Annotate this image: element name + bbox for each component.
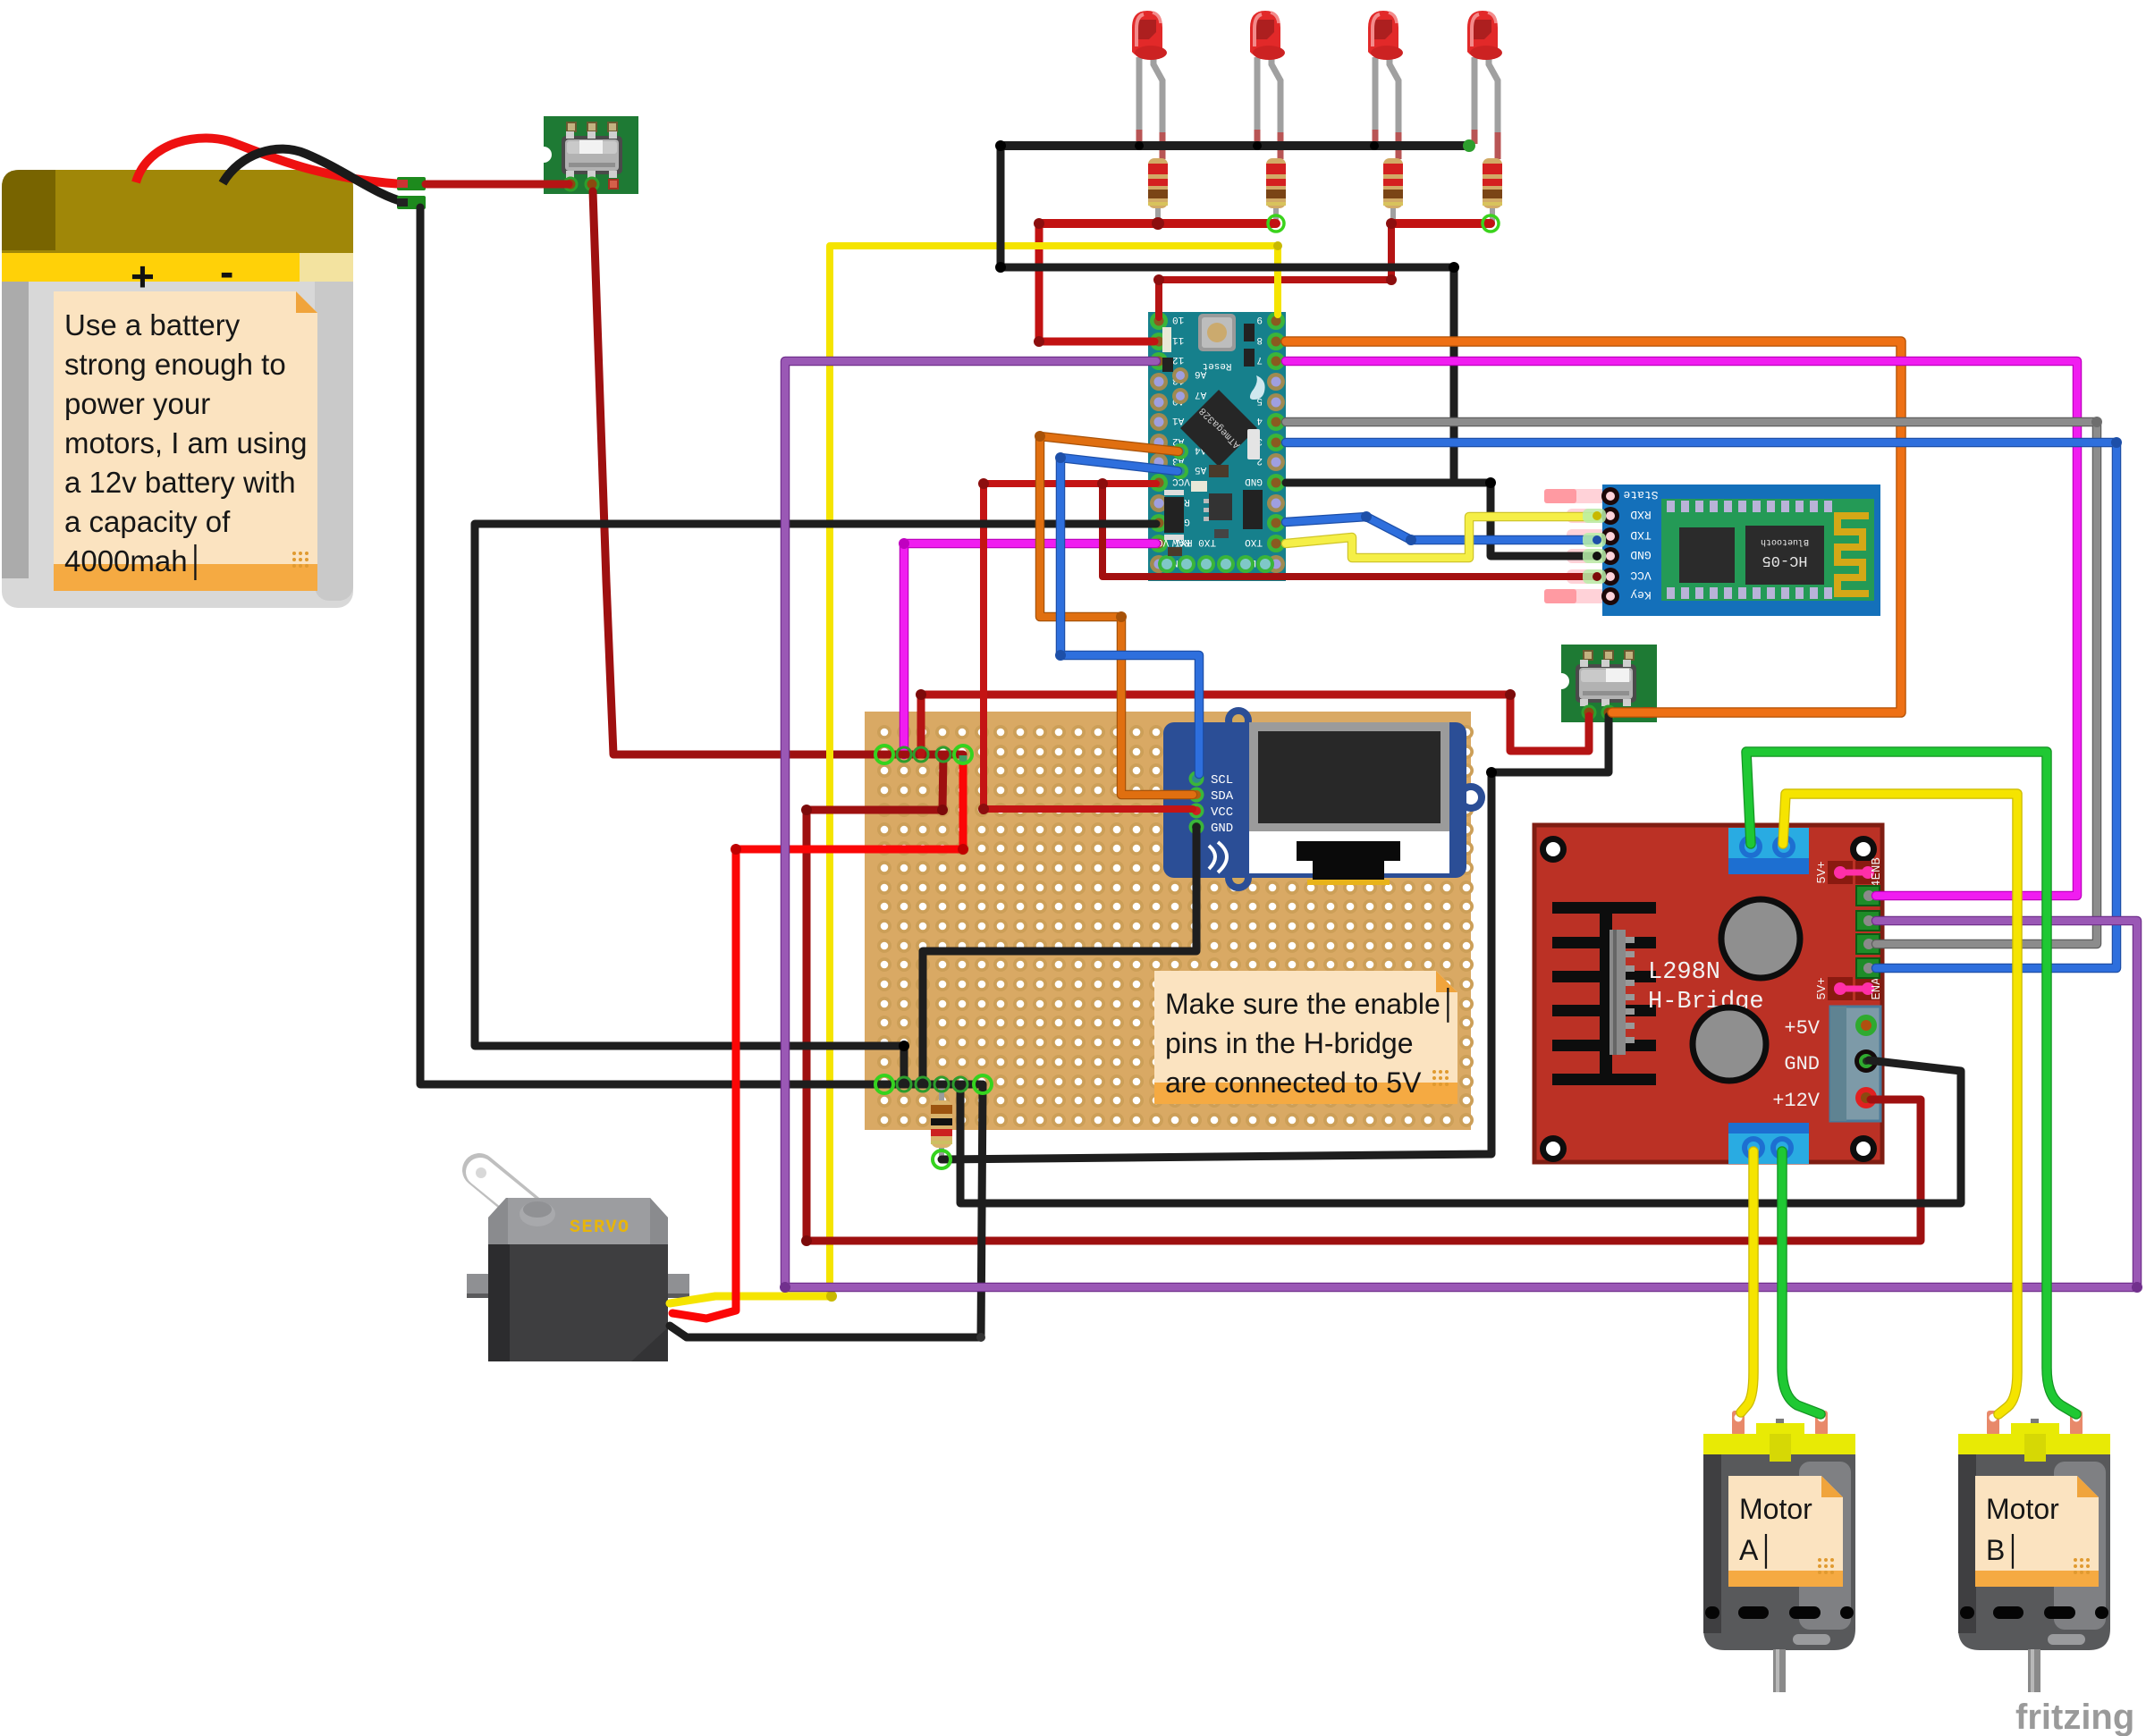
svg-text:11: 11 <box>1172 334 1185 345</box>
wire dark red breadboard branch <box>807 754 943 810</box>
wire black bus drop <box>997 146 1005 267</box>
junction hole <box>875 746 893 763</box>
wire yellow OUT to motor B <box>1783 794 2017 1414</box>
wire red VCC arduino to OLED <box>984 484 1193 809</box>
resistor R1 <box>1148 158 1168 223</box>
svg-text:4000mah│: 4000mah│ <box>64 544 206 580</box>
svg-text:Make sure the enable│: Make sure the enable│ <box>1165 987 1458 1023</box>
svg-text:GND: GND <box>1784 1053 1820 1075</box>
wire green OUT to motor A <box>1782 1151 1821 1414</box>
svg-text:RXD: RXD <box>1630 508 1652 521</box>
wire black LED cathode bus1 <box>1001 141 1469 150</box>
wire black arduino gnd-left to breadboard <box>475 524 1156 1084</box>
svg-text:SERVO: SERVO <box>570 1218 630 1238</box>
battery 12V LiPo <box>2 170 353 608</box>
note battery <box>54 291 317 591</box>
svg-text:4: 4 <box>1256 415 1263 426</box>
svg-text:are connected to 5V: are connected to 5V <box>1165 1066 1422 1099</box>
wire black breadboard to hbridge gnd <box>960 1060 1961 1203</box>
resistor R4 <box>1483 158 1502 223</box>
note motor A <box>1728 1476 1843 1587</box>
svg-text:pins in the H-bridge: pins in the H-bridge <box>1165 1027 1413 1059</box>
LED2 red <box>1250 11 1285 159</box>
svg-text:Motor: Motor <box>1986 1493 2059 1525</box>
LED3 red <box>1368 11 1403 159</box>
svg-text:Use a battery: Use a battery <box>64 308 241 341</box>
svg-text:VCC: VCC <box>1211 805 1233 820</box>
wire red breadboard to switch2 <box>921 695 1589 751</box>
wire red bus to pin11 <box>1039 223 1154 341</box>
svg-text:power your: power your <box>64 387 210 420</box>
wire blue A5 to OLED SCL <box>1060 458 1199 774</box>
HC-05 bluetooth module <box>1544 485 1880 616</box>
svg-text:A│: A│ <box>1739 1533 1776 1569</box>
wire black battery negative <box>223 149 404 202</box>
svg-text:A7: A7 <box>1195 389 1206 400</box>
svg-text:4ENB: 4ENB <box>1870 857 1884 888</box>
svg-text:5V+: 5V+ <box>1815 861 1829 883</box>
wire bright red breadboard to servo 5V <box>672 761 963 1319</box>
junction R4 bottom <box>1483 215 1499 232</box>
resistor R3 <box>1383 158 1403 223</box>
svg-text:strong enough to: strong enough to <box>64 348 286 381</box>
wire black bus2 to arduino gnd <box>1450 267 1458 483</box>
wire orange A4 to OLED SDA <box>1040 436 1193 795</box>
svg-text:+12V: +12V <box>1772 1090 1821 1112</box>
svg-text:a capacity of: a capacity of <box>64 505 231 538</box>
wire black OLED gnd to breadboard <box>923 827 1196 1084</box>
junction hole <box>933 1150 950 1168</box>
wire black resistor R5 to switch2 <box>942 716 1609 1159</box>
wire yellow servo to pin9 <box>830 246 1278 1296</box>
wire dark red VCC to HC-05 <box>1103 484 1597 577</box>
L298N H-Bridge module <box>1534 825 1884 1164</box>
svg-text:Motor: Motor <box>1739 1493 1812 1525</box>
slide switch SW2 <box>1553 645 1657 722</box>
wire blue pin3 to IN1 <box>1286 442 2116 968</box>
svg-text:GND: GND <box>1211 822 1233 836</box>
svg-text:ENA: ENA <box>1870 977 1884 1000</box>
svg-text:GND: GND <box>1630 548 1652 561</box>
slide switch SW1 <box>536 116 638 194</box>
svg-text:VCC: VCC <box>1630 569 1652 582</box>
wire magenta RAW to breadboard <box>904 544 1156 754</box>
wire purple pin12 to IN3 <box>785 361 2137 1287</box>
Arduino Pro Mini U1 <box>1128 312 1286 581</box>
junction hole <box>974 1075 992 1093</box>
wire dark red +12V to hbridge <box>807 810 1921 1241</box>
wire black LED cathode bus2 <box>1001 264 1454 272</box>
resistor R5 <box>931 1084 952 1159</box>
note H-bridge enable <box>1154 971 1458 1104</box>
wire magenta pin7 to IN4 <box>1286 361 2077 896</box>
wire red bus to pin10 <box>1159 223 1391 317</box>
wire red riser <box>917 695 925 754</box>
wire orange pin8 to switch2 <box>1286 341 1901 712</box>
LED1 red <box>1132 11 1167 159</box>
svg-text:GND: GND <box>1245 476 1263 486</box>
svg-text:-: - <box>220 249 233 295</box>
wire red resistor bus R1R2 <box>1039 219 1276 228</box>
svg-text:HC-05: HC-05 <box>1762 552 1807 569</box>
note motor B <box>1975 1476 2099 1587</box>
wire red resistor bus R3R4 <box>1391 219 1491 228</box>
resistor R2 <box>1266 158 1286 223</box>
servo motor <box>467 1167 689 1361</box>
svg-text:10: 10 <box>1172 314 1184 324</box>
wire yellow OUT to motor A <box>1741 1151 1753 1412</box>
svg-text:L298N: L298N <box>1648 959 1720 986</box>
svg-text:9: 9 <box>1256 314 1263 324</box>
junction LED4 cathode <box>1463 139 1475 152</box>
svg-text:SCL: SCL <box>1211 773 1233 788</box>
svg-text:TXO: TXO <box>1245 536 1263 547</box>
wire green OUT to motor B <box>1746 752 2076 1414</box>
svg-text:State: State <box>1623 488 1658 501</box>
wire blue RXI to HC-05 TXD <box>1286 517 1597 540</box>
svg-text:5V+: 5V+ <box>1815 977 1829 999</box>
DC motor B <box>1958 1411 2110 1692</box>
wire gray pin4 to IN2 <box>1286 422 2097 944</box>
svg-text:A5: A5 <box>1195 464 1206 475</box>
wire yellow TXO to HC-05 RXD <box>1286 517 1597 558</box>
wire dark red battery to switch1 <box>426 181 569 189</box>
svg-text:motors, I am using: motors, I am using <box>64 426 307 459</box>
wire black arduino gnd to HC-05 GND <box>1286 483 1597 556</box>
LED4 red <box>1467 11 1502 159</box>
svg-text:Key: Key <box>1630 588 1652 602</box>
svg-text:TXD: TXD <box>1630 528 1652 542</box>
svg-text:12: 12 <box>1172 354 1184 365</box>
svg-text:7: 7 <box>1256 354 1263 365</box>
wire red battery positive <box>136 138 402 184</box>
junction hole <box>954 746 972 763</box>
svg-text:a 12v battery with: a 12v battery with <box>64 466 296 499</box>
junction hole <box>875 1075 893 1093</box>
wire yellow servo signal <box>670 1296 832 1303</box>
svg-text:fritzing: fritzing <box>2015 1698 2134 1736</box>
svg-text:8: 8 <box>1256 334 1263 345</box>
battery wire terminals <box>397 177 426 190</box>
wire dark red switch1 to breadboard <box>593 191 963 754</box>
svg-text:B│: B│ <box>1986 1533 2023 1569</box>
svg-text:Reset: Reset <box>1202 360 1231 371</box>
svg-text:SDA: SDA <box>1211 789 1234 804</box>
svg-text:A1: A1 <box>1172 415 1185 426</box>
svg-text:+5V: +5V <box>1784 1017 1820 1040</box>
svg-text:Bluetooth: Bluetooth <box>1761 536 1809 547</box>
wire black battery gnd to breadboard <box>420 207 981 1084</box>
wire black breadboard to servo gnd <box>670 1084 983 1337</box>
DC motor A <box>1703 1411 1855 1692</box>
junction R2 bottom <box>1268 215 1284 232</box>
OLED display module <box>1163 707 1485 891</box>
perfboard <box>865 712 1474 1130</box>
